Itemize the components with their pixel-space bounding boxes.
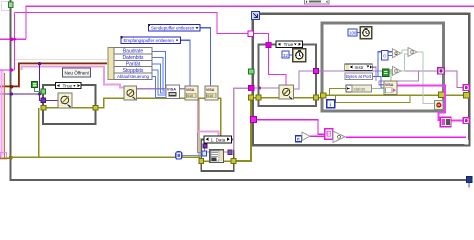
olive wire exits left edge [0,157,11,159]
blue wires from enum constants [200,28,211,86]
[n] terminal bottom row [296,136,302,142]
event structure border [253,14,470,145]
olive wire case1 to VIs row [98,98,221,137]
bright pink data wire from VISA Read [397,86,445,120]
Bytes at Port property row [345,73,373,80]
dimmed label box top-left [2,2,11,11]
svg-text:VISA: VISA [206,88,215,92]
event structure corner notch [465,140,469,145]
magenta tunnel on event left border (y=33.5) [248,31,254,37]
violet wire inside case1 to VISA icon1 [46,99,59,101]
purple across WL y=71 [324,70,438,72]
faint label frame line left [15,59,108,61]
svg-text:VISA: VISA [167,86,176,91]
gate1 comparison triangle [393,49,401,58]
gate4 triangle bottom row [302,132,310,141]
violet junction dot on maroon wire [38,62,41,65]
olive error wire: case1 left down to bottom [11,108,39,157]
purple from case2 close icon to WL [294,71,315,89]
numeric constant 32 (case2) [282,51,289,58]
maroon write arrow at property node [108,62,114,66]
event structure timeout icon (top-left corner) [252,12,260,20]
green wire constT to gate3 [389,72,393,74]
purple tunnel WL right border y=71 [438,68,444,74]
maroon wire to property node Paritaet [0,64,107,87]
magenta tunnel on case2 top border [266,42,271,47]
magenta box bottom row [325,129,333,139]
svg-text:Baudrate: Baudrate [123,49,144,55]
event structure selector label (cropped at top) [305,0,330,4]
VISA open icon2 [124,86,137,100]
TF boolean constant green [32,82,38,88]
gate2 or-gate triangle [408,47,417,56]
olive from 1.Data right to event structure [236,99,252,161]
green wire gate1 out to gate2 [401,50,409,53]
magenta wire inside case2 to close icon [269,46,287,86]
svg-text:100: 100 [349,31,357,36]
while loop stop terminal [435,101,444,110]
purple branch down to Instr node and VISA Read [379,71,419,85]
VISA configure serial port icon [166,85,180,99]
VISA flush buffer icon 2 [205,86,218,100]
1.Data case selector [204,136,232,143]
case structure "1. Data" (bottom middle) [201,140,234,172]
unbundle status node [346,85,372,92]
olive inside 1.Data case [204,160,232,162]
olive branch down at x=199 [198,98,200,157]
olive across event/case2 (y=97.5) [251,97,320,99]
blue wire const to wait clock (case2) [289,54,293,56]
olive wire through case1 (y=107.5) [46,107,94,109]
purple VISA wire: conf icon to 1.Data case [136,88,166,90]
svg-text:Instr: Instr [355,65,364,70]
string to byte array icon bottom right [440,117,451,127]
magenta wire W1 top (y=6) [26,5,474,7]
VISA close icon (case2) [279,85,294,99]
magenta tunnel event right y=120.5 [463,118,469,124]
svg-text:Bytes at Port: Bytes at Port [346,74,372,79]
left edge orange vertical [0,73,5,158]
blue wire const to wait clock (while loop) [357,32,361,34]
olive branch to status unbundle [330,89,347,96]
violet tunnel on case1 left border [41,98,46,103]
svg-text:True: True [284,42,294,48]
green wire gate3 out to gate2 [401,54,409,71]
green tunnel case2 left border [249,69,254,74]
olive across while loop (y=95) [324,94,440,96]
case structure 1 (True, left) [43,85,96,124]
purple VISA Write out up to case2 [224,151,229,153]
svg-text:True: True [63,84,73,90]
olive right of WL to event border [443,94,464,96]
svg-text:Neu Öffnen!: Neu Öffnen! [65,70,90,76]
violet wire from left edge (y=94) to case1 [0,93,40,95]
numeric constant 0 [382,51,389,60]
svg-text:Stoppbits: Stoppbits [123,68,144,74]
purple tunnel on 1.Data right border [228,150,232,154]
svg-text:Sendepuffer entleeren: Sendepuffer entleeren [151,26,195,31]
magenta tunnel event right y=87.5 [463,85,469,91]
svg-text:VISA: VISA [385,83,394,87]
enum constant Sendepuffer entleeren [148,24,200,31]
violet tunnel below 1.Data selector [203,144,207,148]
svg-text:Datenbits: Datenbits [122,55,144,61]
green tunnel on outer border top [9,2,14,8]
magenta wire W4 (y=70) [0,69,15,71]
maroon tunnel dot on outer border [10,85,14,89]
Neu Oeffnen label [63,68,91,77]
blue terminal on outer loop bottom right [467,177,473,183]
numeric constant (while loop) [348,29,357,36]
olive parallel segment inside WL [336,95,411,102]
enum constant Empfangspuffer entleeren [121,36,181,43]
blue wires from property node rows [152,52,167,89]
magenta tunnel case2 right y=71 [314,68,319,73]
property node tan column [108,48,114,80]
magenta junction dots on outer border [10,37,14,41]
svg-text:Ablaufsteuerung: Ablaufsteuerung [117,74,150,79]
light pink selector feed into 1.Data case [198,101,219,139]
magenta tunnel event left y=119 [250,117,256,123]
property node rows [114,48,152,80]
VISA flush buffer icon 1 [185,86,198,100]
blue box inside 1.Data [202,151,207,156]
blue wire Bytes at Port to gate1 and VISA Read [372,52,393,77]
small pink box at left edge bottom [1,153,7,160]
svg-text:010: 010 [187,94,193,98]
svg-text:n: n [297,137,300,142]
Instr property node header [345,64,373,71]
green wire TF to case1 selector tunnel [35,88,42,92]
olive long bottom wire to 1.Data case [11,157,201,161]
bright magenta long wire y=137 [346,136,467,138]
green tunnel case1 left border [41,89,46,94]
VISA close icon1 inside case1 [58,93,72,108]
svg-text:0: 0 [383,54,386,59]
svg-text:VISA: VISA [186,88,195,92]
wait ms clock icon (while loop) [360,27,372,39]
green wire gate2 out to stop terminal [417,52,435,103]
case structure 2 (True, middle) [259,45,317,107]
blue stub into 1.Data [182,155,203,157]
gate3 comparison triangle [393,66,401,75]
magenta wire row A from event tunnel [257,120,325,135]
outer while loop left border [10,0,12,180]
VISA write icon inside 1.Data [210,150,224,163]
purple inside 1.Data to VISA Write [205,148,211,153]
case1 selector True [56,83,82,90]
pink wire (left, to VISA open icon2) [22,67,125,88]
wait ms clock icon (case2) [293,49,306,62]
svg-text:010: 010 [207,94,213,98]
svg-text:32: 32 [283,53,288,58]
purple right of WL to event border [444,71,465,88]
magenta wire gate4 to magenta box [310,135,325,137]
left edge pink verticals [0,71,2,158]
VISA read icon [384,81,397,94]
green wire status to gate3 [372,70,393,89]
svg-text:1. Data: 1. Data [211,137,226,142]
magenta vertical x=14.5 [14,13,16,71]
svg-text:Parität: Parität [126,61,141,67]
while loop border [322,23,444,111]
blue numeric constant left of 1.Data case [176,152,182,159]
case2 selector True [276,41,303,48]
blue wire const0 to gate1 [388,55,393,57]
purple into case2 close icon [254,87,280,89]
boolean constant T green [383,69,390,76]
magenta tunnel on event left border y=88 [249,85,254,90]
magenta wire W3 (y=39) [0,38,26,40]
olive tunnels [41,105,46,110]
magenta wire W1 vertical x=26 [25,6,27,40]
svg-text:status: status [354,86,367,91]
svg-text:Empfangspuffer entleeren: Empfangspuffer entleeren [124,38,175,43]
while loop iteration terminal [327,100,335,109]
gate5 triangle bottom row [333,131,345,142]
magenta wire W2 (y=12.5) [15,13,269,44]
outer while loop bottom border [10,179,472,181]
